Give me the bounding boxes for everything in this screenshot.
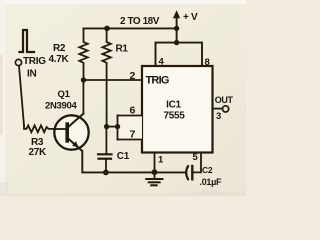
svg-text:7555: 7555 — [163, 111, 185, 122]
svg-text:6: 6 — [130, 105, 136, 117]
svg-text:TRIG: TRIG — [23, 56, 46, 67]
svg-text:IC1: IC1 — [166, 100, 181, 111]
svg-text:2N3904: 2N3904 — [45, 101, 77, 112]
svg-text:OUT: OUT — [215, 95, 234, 105]
svg-text:2: 2 — [130, 70, 136, 82]
svg-text:27K: 27K — [29, 147, 48, 158]
svg-text:R1: R1 — [116, 44, 129, 55]
svg-text:4.7K: 4.7K — [49, 54, 70, 65]
svg-text:3: 3 — [216, 111, 221, 122]
svg-text:TRIG: TRIG — [146, 75, 169, 87]
svg-text:R2: R2 — [53, 43, 66, 54]
svg-text:IN: IN — [27, 69, 36, 80]
svg-text:+ V: + V — [183, 12, 198, 23]
svg-text:8: 8 — [205, 57, 210, 68]
svg-text:C2: C2 — [202, 165, 213, 175]
svg-text:C1: C1 — [117, 151, 130, 162]
svg-text:.01µF: .01µF — [200, 177, 222, 187]
svg-text:2 TO 18V: 2 TO 18V — [120, 16, 160, 27]
svg-text:Q1: Q1 — [58, 89, 71, 100]
svg-text:7: 7 — [130, 129, 136, 141]
